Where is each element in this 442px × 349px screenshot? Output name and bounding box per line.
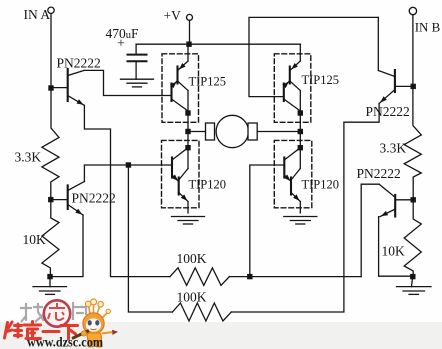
U1 emitter arrow <box>179 63 186 69</box>
U3 emitter arrow <box>181 194 188 201</box>
op TIP125 left dashed box <box>162 54 199 123</box>
U2 collector node junction <box>298 110 303 115</box>
label TIP120 left <box>189 178 227 192</box>
label TIP125 left <box>189 75 227 89</box>
U1 collector node junction <box>185 110 190 115</box>
transistor Q1 PN2222 upper-left <box>51 69 84 105</box>
svg-text:3.3K: 3.3K <box>15 150 42 165</box>
svg-text:TIP120: TIP120 <box>302 178 340 192</box>
label PN2222 Q3 <box>366 104 410 119</box>
wire Q3 emitter to 100K row2 <box>231 104 379 313</box>
Q1 emitter arrow <box>77 99 84 105</box>
transistor Q2 PN2222 lower-left <box>51 182 85 216</box>
label PN2222 Q1 <box>57 56 101 71</box>
svg-text:PN2222: PN2222 <box>357 166 401 181</box>
wire Q1 emitter to 100K row1 <box>84 105 170 276</box>
Q3 collector wire up <box>377 17 379 70</box>
svg-text:+: + <box>117 37 125 52</box>
ground TIP120 left <box>172 217 205 225</box>
svg-text:TIP125: TIP125 <box>302 73 340 87</box>
wire row1 right segment <box>229 276 361 278</box>
label TIP125 right <box>302 73 340 87</box>
transistor Q3 PN2222 upper-right <box>378 70 413 104</box>
resistor R5 100K top row1 <box>170 268 229 286</box>
svg-text:TIP125: TIP125 <box>189 75 227 89</box>
U4 emitter arrow <box>293 194 300 201</box>
Q3 emitter arrow <box>380 96 387 102</box>
transistor U4 TIP120 right darlington <box>284 132 300 214</box>
op TIP120 right dashed box <box>274 140 312 207</box>
wire Q4 collector to 100K row1 <box>361 184 379 276</box>
node B2 junction <box>411 197 416 202</box>
label R5 100K <box>177 251 207 266</box>
ground left <box>33 279 67 294</box>
node A2 junction <box>48 197 53 202</box>
U3 collector node junction <box>185 145 190 150</box>
node B3 ground junction <box>410 274 415 279</box>
svg-text:100K: 100K <box>177 251 207 266</box>
wire row1 junction up to TIP120 right base <box>250 165 284 277</box>
label R2 10K <box>23 232 47 247</box>
svg-text:IN A: IN A <box>24 7 51 22</box>
resistor R3 3.3K right <box>404 86 421 199</box>
op TIP125 right dashed box <box>274 54 311 123</box>
U4 internal emitter arrow <box>284 175 291 182</box>
label TIP120 right <box>302 178 340 192</box>
label R6 100K <box>177 290 207 305</box>
transistor U2 TIP125 right darlington <box>284 44 301 131</box>
Q2 emitter arrow <box>75 209 82 215</box>
U1 internal emitter arrow <box>170 82 177 89</box>
wire IN A vertical to node A1 <box>50 14 52 89</box>
wire +V terminal to rail <box>189 20 191 44</box>
watermark band <box>0 322 442 349</box>
input terminal IN A <box>48 7 54 13</box>
svg-text:PN2222: PN2222 <box>57 56 101 71</box>
svg-text:IN B: IN B <box>415 20 441 35</box>
svg-text:100K: 100K <box>177 290 207 305</box>
transistor U1 TIP125 left darlington <box>172 44 189 131</box>
wire IN B vertical to node B1 <box>412 15 414 87</box>
transistor Q4 PN2222 lower-right <box>379 184 413 216</box>
wire motor right <box>257 131 300 133</box>
wire motor left <box>188 131 206 133</box>
label IN A <box>24 7 51 22</box>
ground right <box>397 279 432 294</box>
resistor R2 10K left <box>42 200 59 277</box>
ground TIP120 right <box>284 217 317 225</box>
U2 emitter arrow <box>291 63 298 69</box>
wire Q2 emitter to ground node A3 <box>50 215 83 277</box>
svg-text:PN2222: PN2222 <box>72 191 116 206</box>
motor M1 <box>206 115 258 147</box>
label R3 3.3K <box>380 141 407 156</box>
power terminal +V <box>187 14 193 20</box>
node base junction left <box>126 162 131 167</box>
label 470uF <box>106 26 140 41</box>
svg-text:TIP120: TIP120 <box>189 178 227 192</box>
junction +V rail <box>186 42 191 47</box>
node A3 ground junction <box>47 274 52 279</box>
label C1 plus sign <box>117 37 125 52</box>
input terminal IN B <box>409 7 416 14</box>
label +V <box>164 8 182 23</box>
resistor R1 3.3K left <box>42 88 59 200</box>
Q4 emitter arrow <box>381 211 388 216</box>
U2 internal emitter arrow <box>282 82 289 89</box>
wire Q4 emitter to ground node B3 <box>379 217 413 277</box>
resistor R6 100K bottom row2 <box>172 303 231 321</box>
svg-text:+V: +V <box>164 8 182 23</box>
label PN2222 Q2 <box>72 191 116 206</box>
svg-text:PN2222: PN2222 <box>366 104 410 119</box>
node row1 junction <box>247 274 252 279</box>
wire top link Q3 collector to U2 base <box>249 17 378 96</box>
ground for C1 <box>121 79 154 87</box>
U3 internal emitter arrow <box>172 175 179 182</box>
svg-text:10K: 10K <box>23 232 47 247</box>
wire base junction down to 100K row2 <box>128 165 172 312</box>
label IN B <box>415 20 441 35</box>
U4 collector node junction <box>298 145 303 150</box>
transistor U3 TIP120 left darlington <box>172 132 188 214</box>
node B1 junction <box>411 84 416 89</box>
label R1 3.3K <box>15 150 42 165</box>
node motor right junction <box>298 129 303 134</box>
op TIP120 left dashed box <box>162 140 200 207</box>
svg-text:3.3K: 3.3K <box>380 141 407 156</box>
watermark dzsc logo <box>5 299 119 349</box>
svg-text:www.dzsc.com: www.dzsc.com <box>27 335 104 349</box>
wire +V rail horizontal <box>136 43 300 45</box>
resistor R4 10K right <box>404 200 421 277</box>
label PN2222 Q4 <box>357 166 401 181</box>
capacitor C1 470uF <box>128 44 147 79</box>
wire Q2 collector to TIP120-left base <box>84 165 171 182</box>
node A1 junction <box>48 85 53 90</box>
svg-text:10K: 10K <box>382 244 406 259</box>
node motor left junction <box>185 129 190 134</box>
label R4 10K <box>382 244 406 259</box>
wire Q1 collector to TIP125-left base <box>84 70 172 95</box>
